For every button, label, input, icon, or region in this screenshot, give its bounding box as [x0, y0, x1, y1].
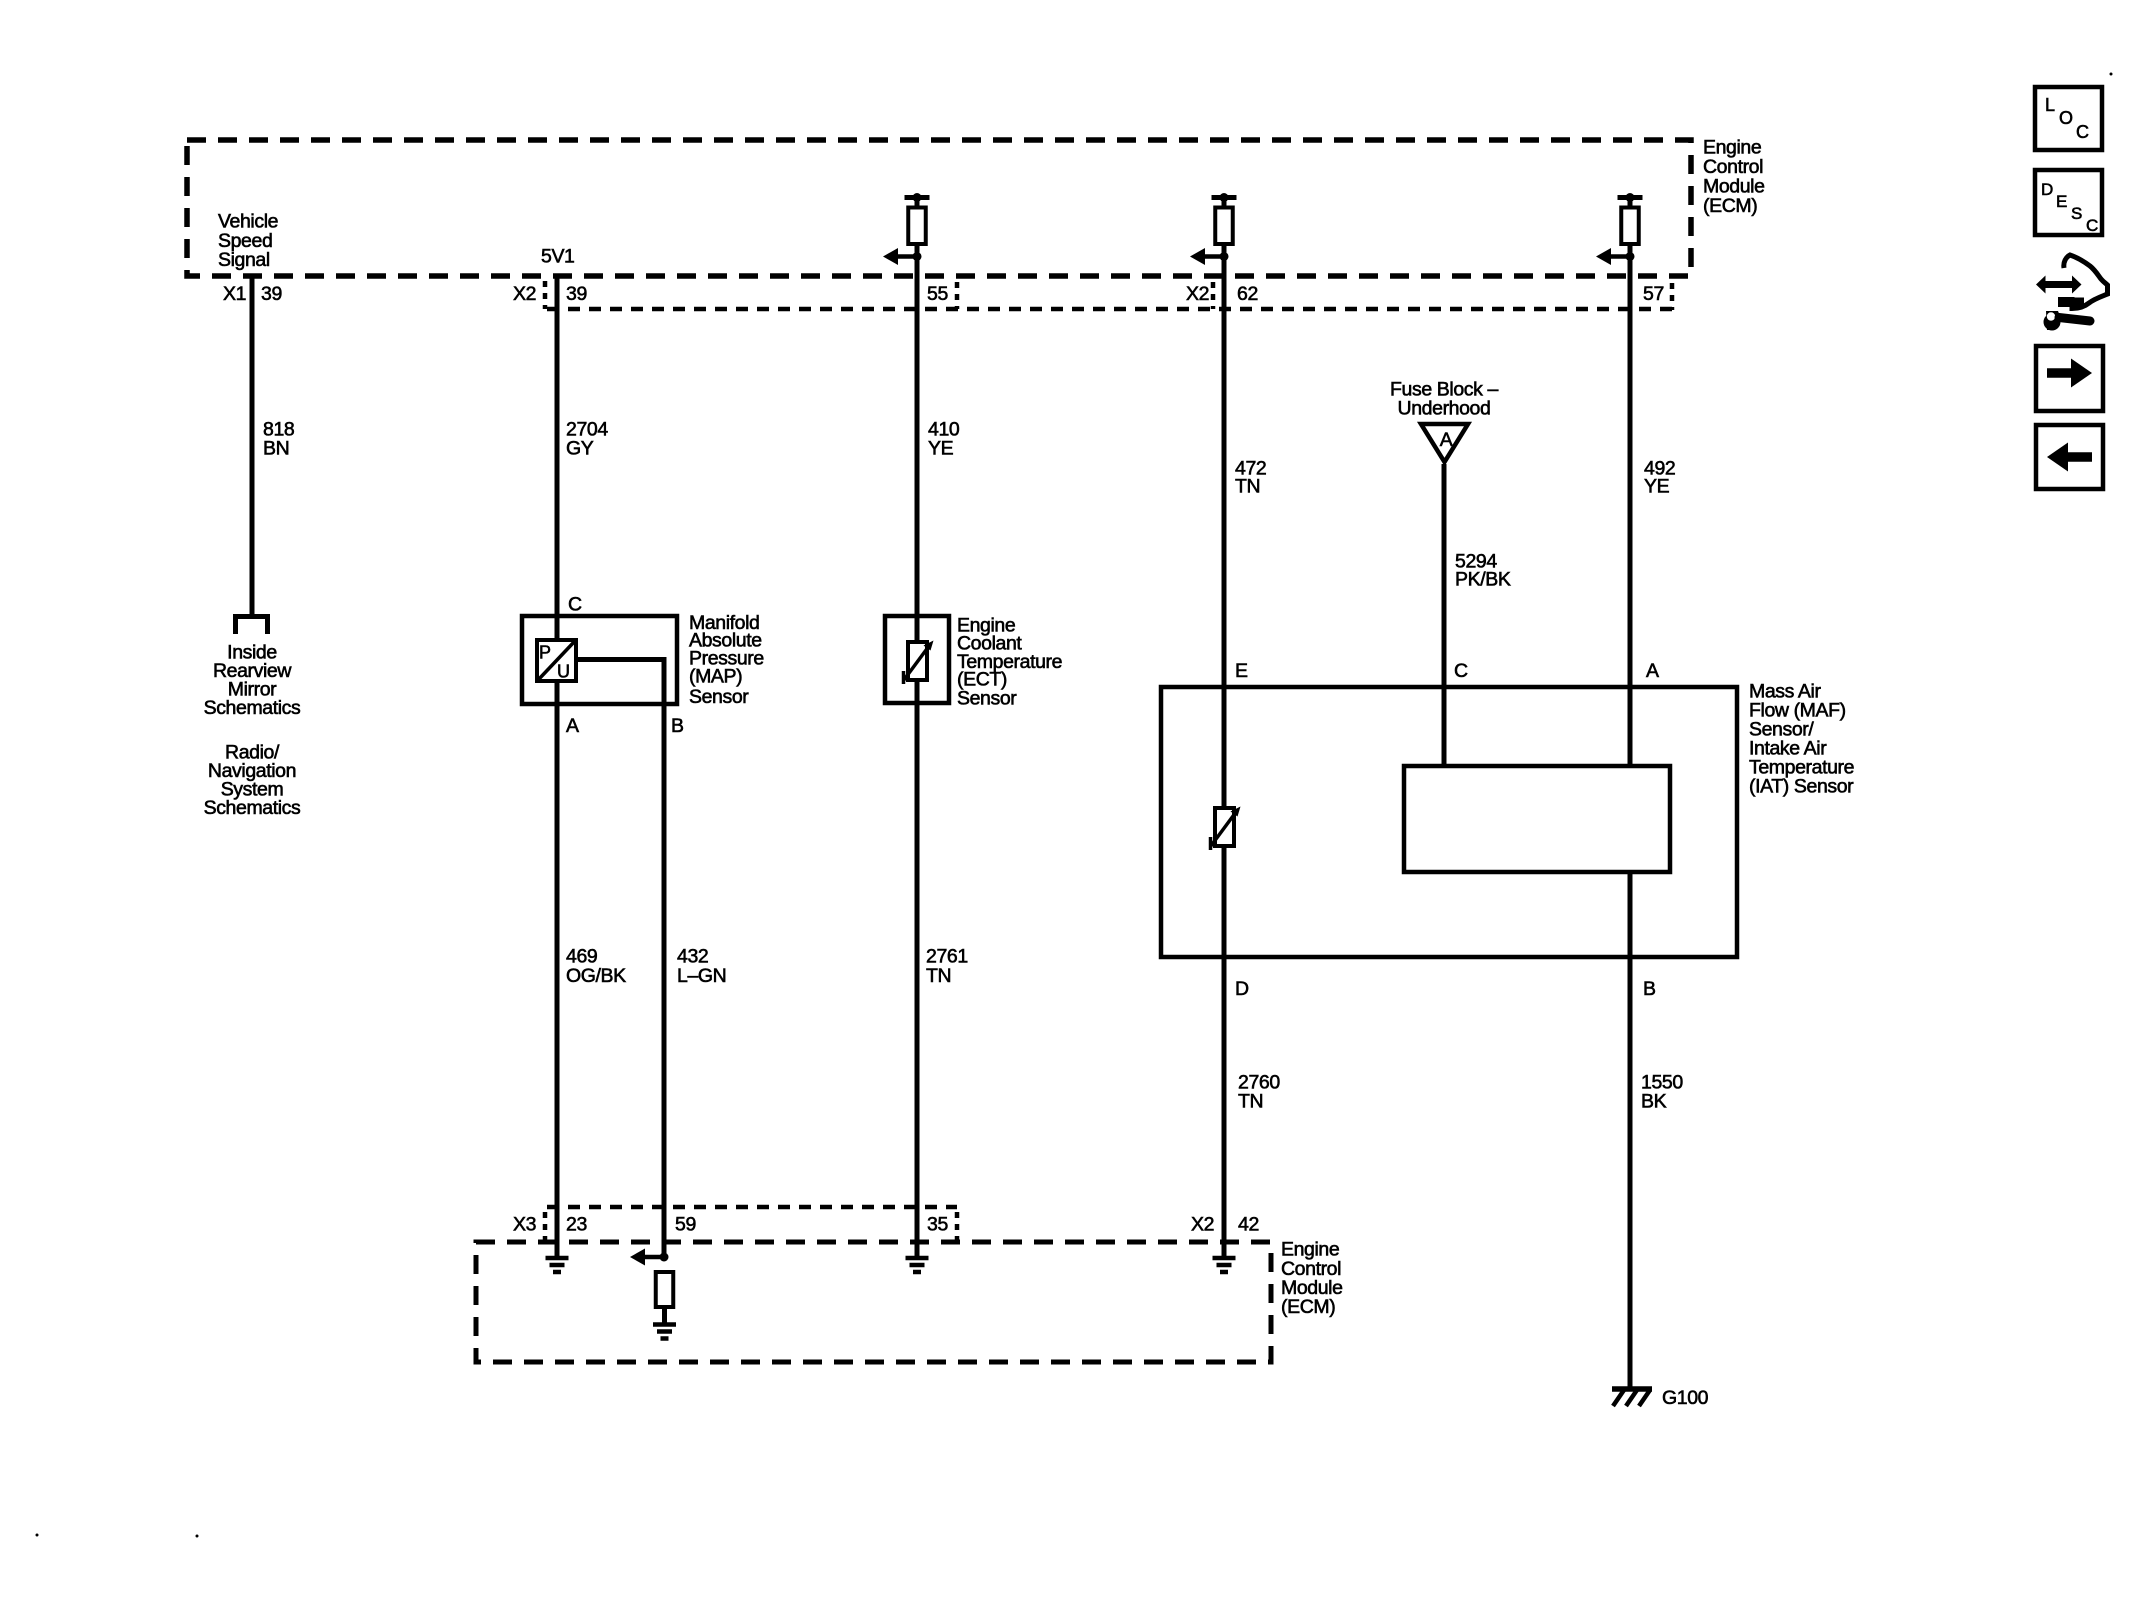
svg-text:X2: X2: [1191, 1214, 1214, 1236]
wire 2704 GY vertical: [555, 276, 560, 640]
connector tick X2-62: [1211, 282, 1216, 309]
svg-text:BK: BK: [1641, 1091, 1667, 1113]
svg-text:L–GN: L–GN: [677, 965, 726, 987]
MAF thermistor: [1211, 807, 1241, 851]
wire 492 YE vertical: [1628, 244, 1633, 767]
connector tick X3-23: [543, 1212, 548, 1240]
ground at pin 35: [906, 1258, 929, 1272]
ground at pin 42: [1213, 1258, 1236, 1272]
svg-text:39: 39: [261, 283, 282, 305]
svg-text:(ECM): (ECM): [1703, 195, 1757, 217]
svg-text:TN: TN: [926, 965, 951, 987]
svg-text:55: 55: [927, 283, 948, 305]
node Inside Rearview Mirror Schematics: [204, 642, 301, 720]
off-page arrow at pin 62: [1190, 248, 1229, 265]
icon DESC: [2035, 170, 2102, 235]
connector dotted line top: [547, 307, 1673, 312]
svg-text:X3: X3: [513, 1214, 536, 1236]
wire 2760 TN (MAF D): [1222, 846, 1227, 1258]
connector tick 57: [1670, 283, 1675, 310]
ECT sensor box: [885, 616, 949, 703]
svg-text:C: C: [568, 594, 582, 616]
svg-text:(IAT) Sensor: (IAT) Sensor: [1749, 776, 1854, 798]
chassis ground G100: [1612, 1389, 1652, 1406]
wire 5294 PK/BK: [1442, 464, 1447, 767]
ECM U1 top dashed box: [187, 140, 1691, 276]
MAP label: [689, 612, 764, 708]
svg-text:PK/BK: PK/BK: [1455, 569, 1511, 591]
MAP P/U pressure symbol: [537, 640, 576, 682]
svg-text:X2: X2: [513, 283, 536, 305]
svg-text:GY: GY: [566, 438, 594, 460]
svg-text:35: 35: [927, 1214, 948, 1236]
speck: [2110, 73, 2113, 76]
wire through ECT box: [915, 616, 920, 642]
svg-text:C: C: [1454, 660, 1468, 682]
wire 818 BN vertical: [250, 277, 255, 614]
ground at pin 59: [653, 1325, 676, 1339]
svg-text:YE: YE: [928, 438, 954, 460]
wire resistor to ground: [662, 1307, 667, 1326]
connector tick 35: [955, 1212, 960, 1240]
resistor in ECM (pin 62): [1212, 193, 1237, 244]
icon next arrow: [2036, 346, 2103, 411]
wire 2761 TN: [915, 703, 920, 1258]
svg-text:B: B: [671, 715, 684, 737]
off-page arrow at pin 59: [630, 1249, 669, 1266]
svg-text:U: U: [557, 662, 570, 682]
MAP sensor box: [522, 616, 677, 704]
fuse block triangle A: [1421, 424, 1468, 462]
MAF sensor box: [1161, 687, 1737, 957]
svg-text:Underhood: Underhood: [1398, 398, 1491, 420]
svg-text:TN: TN: [1235, 476, 1260, 498]
svg-text:A: A: [1440, 429, 1453, 451]
off-page connector bracket: [233, 617, 270, 635]
svg-text:BN: BN: [263, 438, 289, 460]
ECM bottom dashed box: [476, 1242, 1271, 1362]
svg-text:E: E: [1235, 660, 1248, 682]
icon LOC: [2035, 87, 2102, 150]
wire 432 L-GN (MAP B): [576, 660, 664, 1258]
MAF inner rectangle: [1404, 766, 1670, 872]
svg-text:39: 39: [566, 283, 587, 305]
off-page arrow at pin 55: [883, 248, 922, 265]
Fuse Block - Underhood label: [1390, 379, 1498, 420]
svg-text:62: 62: [1237, 283, 1258, 305]
svg-text:59: 59: [675, 1214, 696, 1236]
svg-text:TN: TN: [1238, 1091, 1263, 1113]
wire 472 TN vertical: [1222, 244, 1227, 808]
svg-text:Sensor: Sensor: [957, 688, 1017, 710]
svg-text:Sensor: Sensor: [689, 686, 749, 708]
resistor in ECM (pin 55): [905, 193, 930, 244]
svg-text:5V1: 5V1: [541, 246, 575, 268]
svg-text:OG/BK: OG/BK: [566, 965, 626, 987]
svg-text:O: O: [2059, 108, 2073, 128]
svg-text:D: D: [2041, 180, 2053, 199]
icon back arrow: [2036, 425, 2103, 489]
connector tick 55: [955, 282, 960, 309]
svg-text:X2: X2: [1186, 283, 1209, 305]
ECM label: [1703, 137, 1765, 218]
svg-text:Schematics: Schematics: [204, 697, 301, 719]
svg-text:G100: G100: [1662, 1387, 1709, 1409]
MAF label: [1749, 681, 1854, 798]
svg-text:42: 42: [1238, 1214, 1259, 1236]
svg-text:X1: X1: [223, 283, 246, 305]
svg-text:C: C: [2086, 216, 2098, 235]
svg-text:YE: YE: [1644, 476, 1670, 498]
connector tick X2-39: [543, 281, 548, 309]
svg-text:P: P: [539, 643, 551, 663]
svg-text:B: B: [1643, 978, 1656, 1000]
svg-text:C: C: [2076, 122, 2089, 142]
svg-text:Signal: Signal: [218, 249, 270, 271]
ground at pin 23: [546, 1258, 569, 1272]
icon car diagnostic: [2036, 255, 2108, 331]
node Vehicle Speed Signal: [218, 211, 278, 272]
ECT label: [957, 615, 1062, 710]
svg-text:(ECM): (ECM): [1281, 1296, 1335, 1318]
svg-text:Schematics: Schematics: [204, 797, 301, 819]
off-page arrow at pin 57: [1596, 248, 1635, 265]
svg-text:A: A: [1646, 660, 1659, 682]
speck: [36, 1534, 39, 1537]
wire 1550 BK (MAF B to G100): [1628, 873, 1633, 1389]
resistor in ECM (pin 57): [1618, 193, 1643, 244]
node Radio/Navigation System Schematics: [204, 742, 301, 820]
svg-text:57: 57: [1643, 283, 1664, 305]
svg-text:23: 23: [566, 1214, 587, 1236]
svg-text:A: A: [566, 715, 579, 737]
wire 469 OG/BK (MAP A to ECM ground): [555, 681, 560, 1258]
ECM bottom label: [1281, 1239, 1343, 1319]
svg-text:(MAP): (MAP): [689, 666, 742, 688]
wire 410 YE vertical: [915, 244, 920, 616]
svg-text:S: S: [2071, 204, 2082, 223]
ECT thermistor: [904, 641, 934, 685]
svg-text:E: E: [2056, 192, 2067, 211]
resistor at pin 59: [656, 1272, 674, 1307]
speck: [196, 1535, 199, 1538]
svg-text:L: L: [2045, 95, 2055, 115]
svg-text:D: D: [1235, 978, 1249, 1000]
connector dotted line bottom: [547, 1205, 957, 1210]
